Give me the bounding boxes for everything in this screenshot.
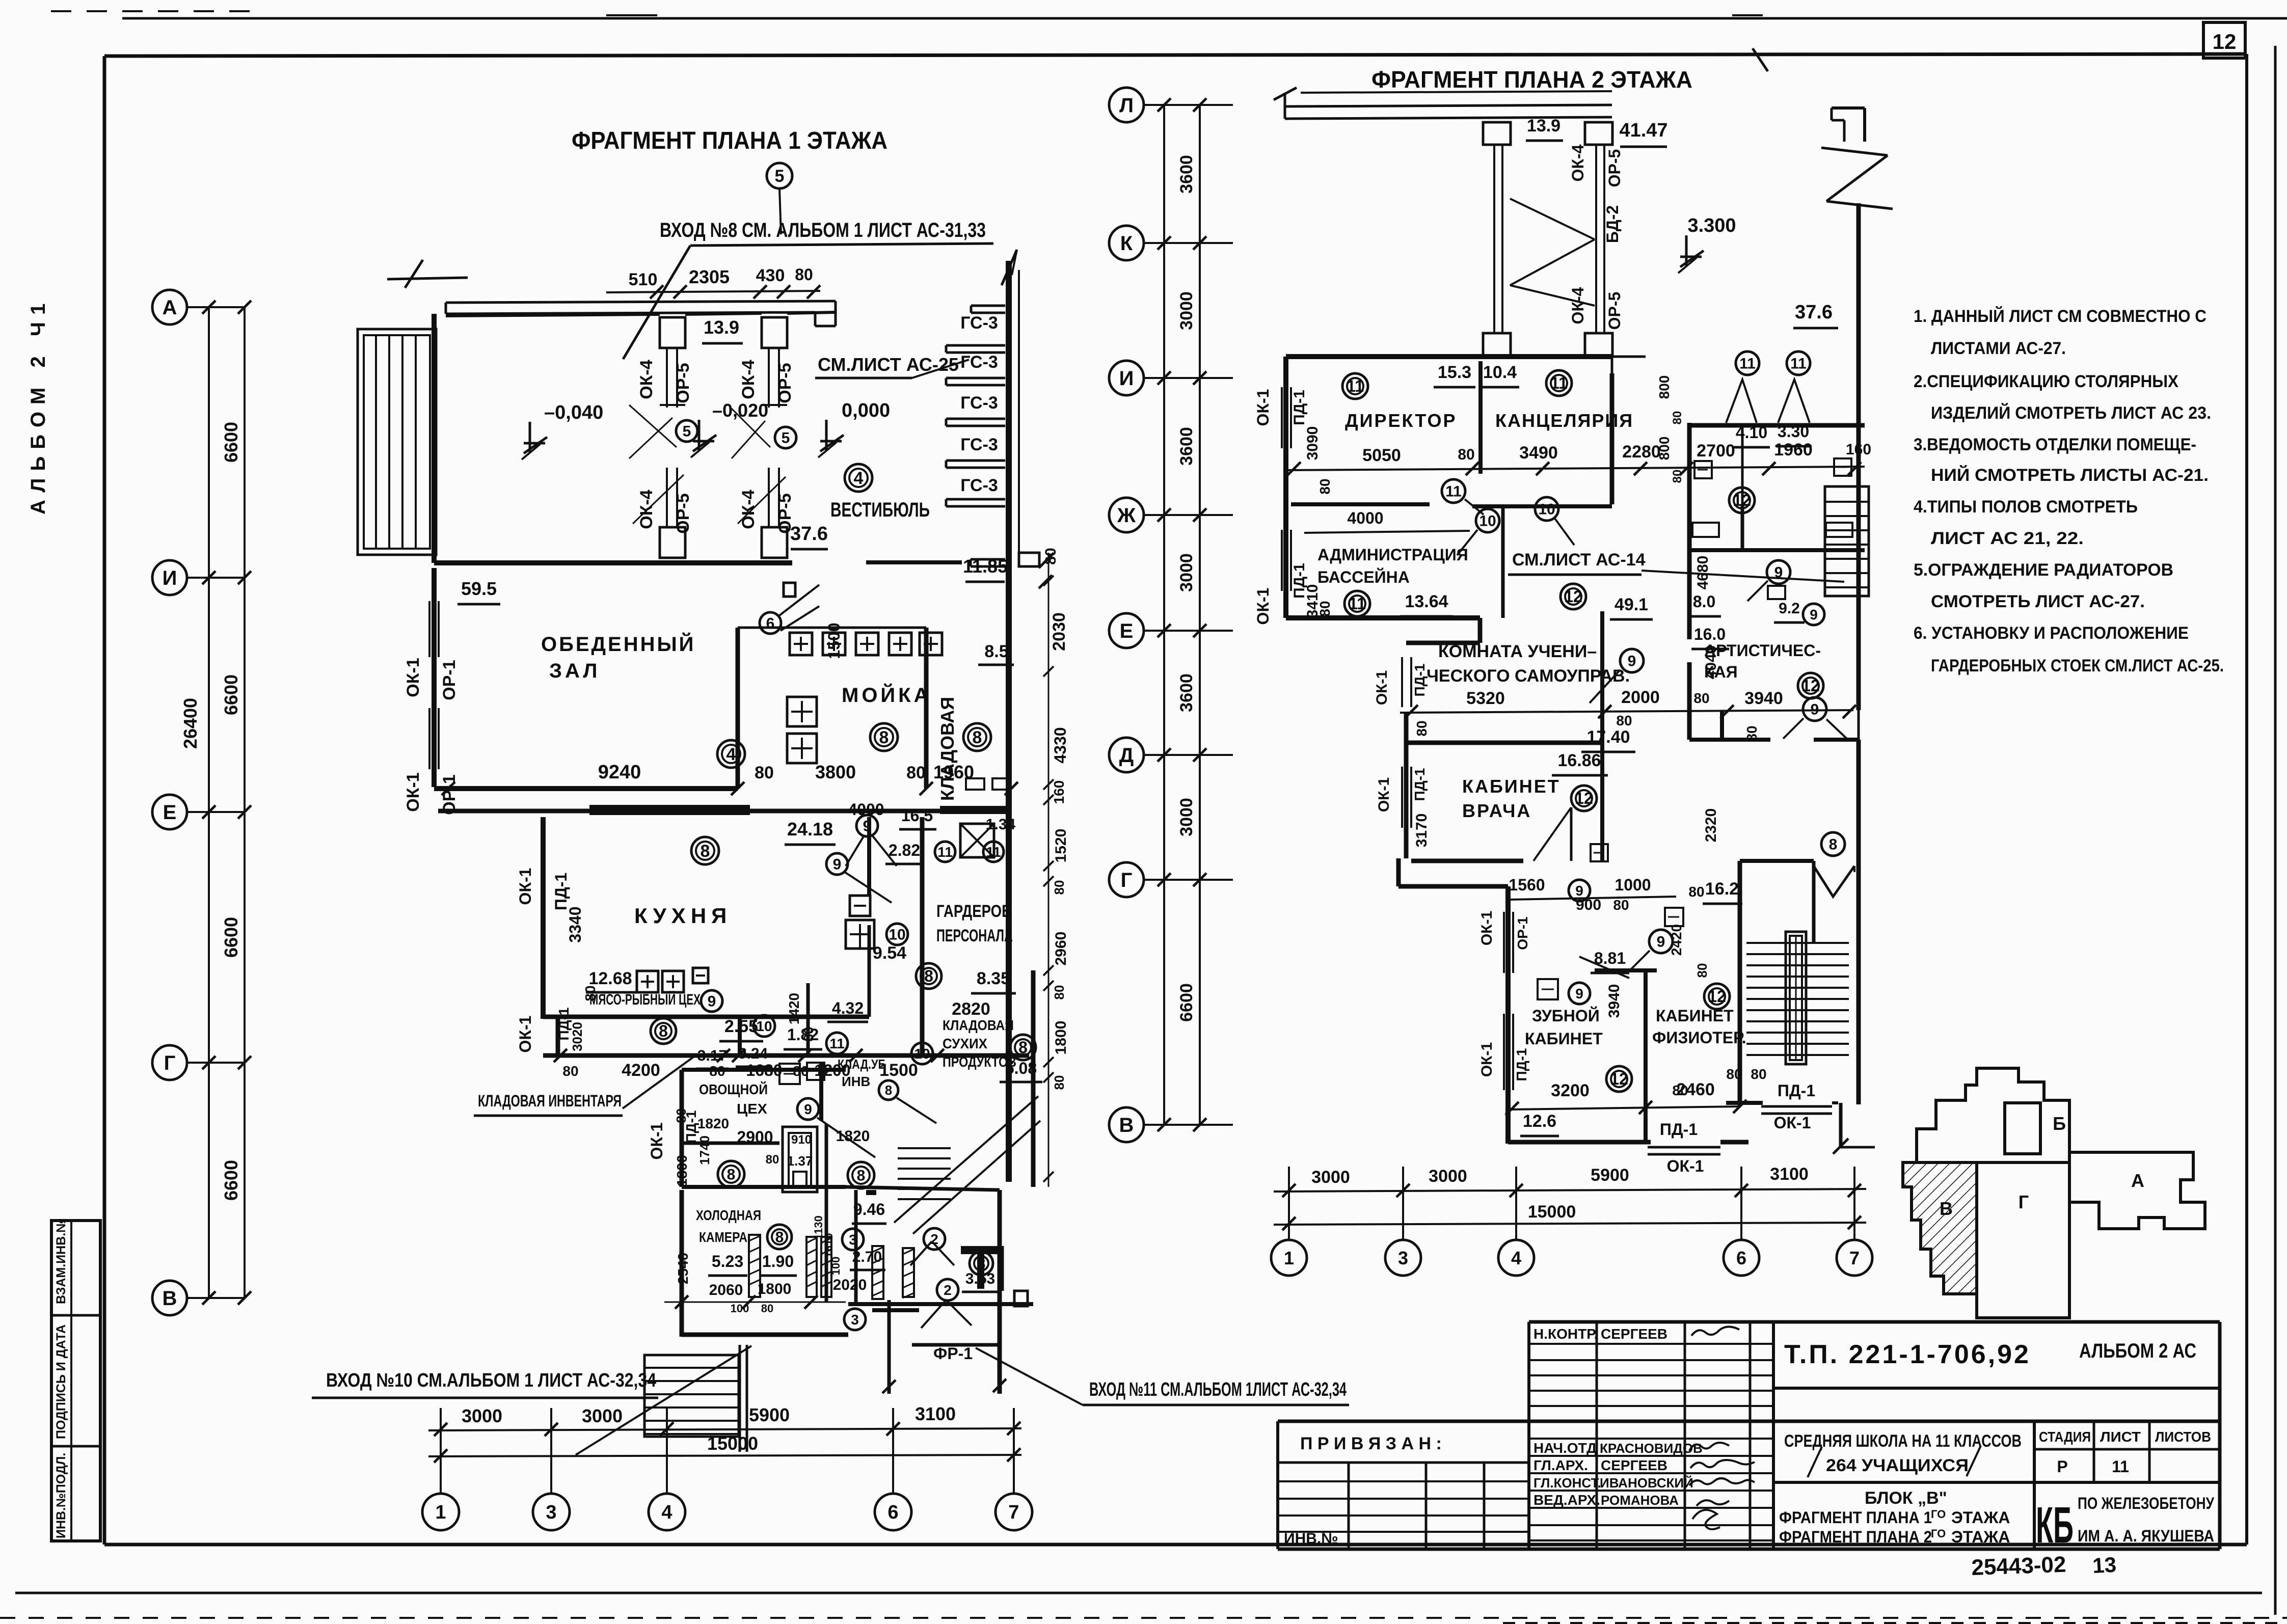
svg-text:1000: 1000 bbox=[1615, 876, 1651, 894]
svg-text:КОМНАТА УЧЕНИ–: КОМНАТА УЧЕНИ– bbox=[1438, 642, 1597, 661]
svg-text:Е: Е bbox=[1120, 620, 1134, 642]
svg-text:6. УСТАНОВКУ И РАСПОЛОЖЕНИЕ: 6. УСТАНОВКУ И РАСПОЛОЖЕНИЕ bbox=[1914, 624, 2189, 643]
svg-text:ДИРЕКТОР: ДИРЕКТОР bbox=[1345, 410, 1457, 431]
svg-text:Т.П. 221-1-706,92: Т.П. 221-1-706,92 bbox=[1784, 1340, 2031, 1369]
svg-text:Г: Г bbox=[164, 1052, 176, 1074]
svg-text:25443-02: 25443-02 bbox=[1971, 1552, 2067, 1580]
svg-text:5900: 5900 bbox=[1591, 1166, 1629, 1185]
svg-text:3.30: 3.30 bbox=[1778, 422, 1809, 441]
svg-text:1: 1 bbox=[435, 1502, 446, 1523]
svg-text:Ж: Ж bbox=[1117, 504, 1136, 527]
svg-text:9: 9 bbox=[833, 856, 842, 873]
svg-text:ОК-1: ОК-1 bbox=[1478, 911, 1495, 945]
svg-text:2420: 2420 bbox=[1669, 924, 1684, 956]
svg-text:ОК-1: ОК-1 bbox=[403, 658, 423, 697]
svg-text:12: 12 bbox=[1564, 587, 1582, 606]
svg-text:ОВОЩНОЙ: ОВОЩНОЙ bbox=[699, 1081, 768, 1097]
svg-text:80: 80 bbox=[1458, 446, 1474, 463]
svg-text:ОР-1: ОР-1 bbox=[440, 660, 459, 700]
svg-text:ПД-1: ПД-1 bbox=[1778, 1081, 1815, 1100]
svg-text:К: К bbox=[1120, 232, 1133, 255]
svg-text:10: 10 bbox=[889, 927, 905, 943]
svg-text:ФИЗИОТЕР.: ФИЗИОТЕР. bbox=[1652, 1028, 1746, 1047]
svg-text:37.6: 37.6 bbox=[1795, 302, 1833, 323]
svg-text:АДМИНИСТРАЦИЯ: АДМИНИСТРАЦИЯ bbox=[1317, 546, 1468, 564]
svg-text:ВЗАМ.ИНВ.№: ВЗАМ.ИНВ.№ bbox=[54, 1219, 68, 1304]
svg-text:ПД-1: ПД-1 bbox=[552, 873, 570, 910]
svg-text:1420: 1420 bbox=[786, 993, 802, 1024]
svg-text:ПОДПИСЬ И ДАТА: ПОДПИСЬ И ДАТА bbox=[54, 1324, 68, 1439]
svg-text:ОР-5: ОР-5 bbox=[775, 363, 795, 403]
svg-text:12: 12 bbox=[1708, 987, 1726, 1006]
svg-text:ОК-1: ОК-1 bbox=[1374, 670, 1390, 705]
svg-text:800: 800 bbox=[1656, 375, 1672, 399]
svg-text:6600: 6600 bbox=[221, 674, 241, 715]
svg-text:37.6: 37.6 bbox=[790, 523, 828, 545]
svg-text:–0,040: –0,040 bbox=[544, 402, 603, 423]
svg-text:Г: Г bbox=[1121, 869, 1133, 891]
svg-text:ОР-5: ОР-5 bbox=[674, 363, 693, 403]
svg-text:3000: 3000 bbox=[1429, 1167, 1467, 1186]
svg-text:ЧЕСКОГО САМОУПРАВ.: ЧЕСКОГО САМОУПРАВ. bbox=[1427, 666, 1630, 686]
svg-text:9240: 9240 bbox=[598, 762, 641, 783]
svg-text:2460: 2460 bbox=[1676, 1080, 1715, 1099]
svg-text:ЭТАЖА: ЭТАЖА bbox=[1951, 1508, 2010, 1527]
svg-text:В: В bbox=[1119, 1114, 1134, 1136]
svg-text:11: 11 bbox=[1790, 356, 1807, 372]
svg-text:ПД-1: ПД-1 bbox=[1291, 390, 1308, 425]
svg-text:3.17: 3.17 bbox=[697, 1047, 727, 1064]
svg-text:МЯСО-РЫБНЫЙ ЦЕХ: МЯСО-РЫБНЫЙ ЦЕХ bbox=[589, 991, 701, 1008]
svg-text:59.5: 59.5 bbox=[461, 578, 497, 599]
svg-text:80: 80 bbox=[1613, 897, 1629, 913]
svg-text:ФРАГМЕНТ ПЛАНА 2: ФРАГМЕНТ ПЛАНА 2 bbox=[1779, 1528, 1932, 1546]
svg-text:24.18: 24.18 bbox=[787, 819, 833, 840]
svg-text:3100: 3100 bbox=[915, 1403, 956, 1424]
svg-text:10.4: 10.4 bbox=[1483, 363, 1517, 382]
svg-text:3940: 3940 bbox=[1606, 984, 1623, 1018]
svg-text:12: 12 bbox=[2213, 30, 2237, 53]
svg-text:3100: 3100 bbox=[1770, 1165, 1809, 1184]
svg-text:9: 9 bbox=[804, 1101, 812, 1117]
svg-text:8: 8 bbox=[775, 1229, 784, 1246]
svg-text:1800: 1800 bbox=[1053, 1021, 1069, 1055]
svg-text:80: 80 bbox=[1052, 985, 1067, 1000]
svg-text:ГС-3: ГС-3 bbox=[960, 435, 998, 454]
svg-text:ИНВ: ИНВ bbox=[842, 1074, 870, 1089]
svg-text:ЗУБНОЙ: ЗУБНОЙ bbox=[1532, 1007, 1600, 1025]
svg-text:ОК-1: ОК-1 bbox=[516, 1016, 534, 1053]
svg-text:1520: 1520 bbox=[1053, 829, 1069, 863]
svg-text:9: 9 bbox=[708, 993, 716, 1010]
svg-text:11: 11 bbox=[1347, 377, 1364, 395]
svg-text:11: 11 bbox=[937, 844, 953, 860]
svg-text:ОК-4: ОК-4 bbox=[637, 360, 656, 399]
svg-text:9: 9 bbox=[1774, 564, 1783, 581]
svg-text:2960: 2960 bbox=[1053, 932, 1069, 966]
svg-text:430: 430 bbox=[756, 266, 785, 285]
svg-text:ИНВ.№: ИНВ.№ bbox=[1284, 1530, 1338, 1547]
svg-text:15.3: 15.3 bbox=[1438, 363, 1471, 382]
svg-text:12.6: 12.6 bbox=[1523, 1112, 1556, 1131]
svg-text:КАНЦЕЛЯРИЯ: КАНЦЕЛЯРИЯ bbox=[1495, 410, 1633, 431]
svg-text:11: 11 bbox=[1349, 594, 1366, 613]
svg-text:3000: 3000 bbox=[1177, 798, 1196, 836]
svg-text:80: 80 bbox=[1693, 690, 1709, 706]
svg-text:ЛИСТ: ЛИСТ bbox=[2100, 1429, 2141, 1445]
svg-text:12: 12 bbox=[1733, 491, 1751, 509]
svg-text:160: 160 bbox=[1051, 780, 1067, 804]
svg-text:2.СПЕЦИФИКАЦИЮ СТОЛЯРНЫХ: 2.СПЕЦИФИКАЦИЮ СТОЛЯРНЫХ bbox=[1914, 372, 2178, 391]
svg-text:80: 80 bbox=[1671, 411, 1684, 425]
svg-text:1960: 1960 bbox=[1774, 440, 1813, 459]
svg-text:80: 80 bbox=[674, 1108, 689, 1123]
svg-text:ИМ А. А. ЯКУШЕВА: ИМ А. А. ЯКУШЕВА bbox=[2078, 1527, 2214, 1545]
svg-text:80: 80 bbox=[1317, 478, 1333, 494]
svg-text:7: 7 bbox=[1849, 1248, 1860, 1268]
svg-text:СМ.ЛИСТ АС-25: СМ.ЛИСТ АС-25 bbox=[818, 354, 959, 375]
svg-text:9.24: 9.24 bbox=[738, 1045, 768, 1062]
svg-text:6600: 6600 bbox=[1177, 983, 1196, 1022]
svg-text:1740: 1740 bbox=[697, 1135, 712, 1165]
svg-text:910: 910 bbox=[791, 1133, 812, 1147]
svg-text:4040: 4040 bbox=[1703, 645, 1719, 680]
svg-text:80: 80 bbox=[1414, 720, 1430, 736]
svg-text:3.300: 3.300 bbox=[1687, 215, 1736, 236]
svg-text:ПД-1: ПД-1 bbox=[1412, 768, 1428, 801]
svg-text:ХОЛОДНАЯ: ХОЛОДНАЯ bbox=[696, 1207, 761, 1223]
svg-text:ОК-4: ОК-4 bbox=[1569, 144, 1587, 181]
svg-text:ГЛ.КОНСТ.: ГЛ.КОНСТ. bbox=[1533, 1475, 1601, 1491]
svg-text:ПД-1: ПД-1 bbox=[1660, 1120, 1698, 1139]
svg-text:КАМЕРА: КАМЕРА bbox=[699, 1229, 747, 1245]
svg-text:3600: 3600 bbox=[1177, 673, 1196, 712]
svg-text:АЛЬБОМ 2 Ч1: АЛЬБОМ 2 Ч1 bbox=[27, 296, 49, 515]
svg-text:80: 80 bbox=[761, 1302, 773, 1315]
svg-text:80: 80 bbox=[755, 763, 774, 782]
svg-text:СТАДИЯ: СТАДИЯ bbox=[2039, 1429, 2091, 1445]
svg-text:ФР-1: ФР-1 bbox=[933, 1344, 973, 1363]
svg-text:3000: 3000 bbox=[1311, 1168, 1350, 1187]
svg-text:2540: 2540 bbox=[675, 1253, 691, 1284]
svg-text:2280: 2280 bbox=[1622, 442, 1661, 462]
svg-text:2030: 2030 bbox=[1050, 612, 1069, 651]
svg-text:8: 8 bbox=[973, 728, 982, 747]
svg-text:И: И bbox=[1119, 367, 1134, 390]
svg-text:16.2: 16.2 bbox=[1705, 879, 1739, 899]
svg-text:9: 9 bbox=[1657, 934, 1665, 951]
svg-text:1. ДАННЫЙ ЛИСТ СМ СОВМЕСТНО С: 1. ДАННЫЙ ЛИСТ СМ СОВМЕСТНО С bbox=[1914, 306, 2207, 326]
svg-text:ПЕРСОНАЛА: ПЕРСОНАЛА bbox=[936, 926, 1013, 945]
svg-text:1800: 1800 bbox=[758, 1281, 792, 1297]
svg-text:ЛИСТОВ: ЛИСТОВ bbox=[2155, 1429, 2211, 1445]
svg-text:13.9: 13.9 bbox=[704, 317, 739, 338]
svg-text:6600: 6600 bbox=[221, 422, 241, 463]
svg-text:А: А bbox=[2131, 1170, 2144, 1191]
svg-text:10: 10 bbox=[1479, 513, 1496, 530]
svg-text:5.23: 5.23 bbox=[712, 1252, 743, 1270]
svg-text:11: 11 bbox=[1445, 483, 1462, 500]
svg-text:3170: 3170 bbox=[1413, 814, 1430, 848]
svg-text:В: В bbox=[1940, 1198, 1953, 1219]
svg-text:3800: 3800 bbox=[815, 762, 856, 782]
svg-text:4: 4 bbox=[854, 469, 864, 488]
svg-text:ВРАЧА: ВРАЧА bbox=[1462, 800, 1531, 821]
svg-text:8: 8 bbox=[727, 1167, 736, 1183]
svg-text:ФРАГМЕНТ ПЛАНА 1: ФРАГМЕНТ ПЛАНА 1 bbox=[1779, 1508, 1932, 1527]
svg-text:0,000: 0,000 bbox=[842, 400, 890, 421]
svg-text:КЛАДОВАЯ: КЛАДОВАЯ bbox=[943, 1017, 1014, 1033]
svg-text:12: 12 bbox=[1575, 789, 1593, 807]
svg-text:2000: 2000 bbox=[1621, 688, 1660, 707]
svg-text:2020: 2020 bbox=[833, 1277, 867, 1293]
svg-text:5: 5 bbox=[775, 167, 785, 186]
svg-text:НИЙ СМОТРЕТЬ ЛИСТЫ АС-21.: НИЙ СМОТРЕТЬ ЛИСТЫ АС-21. bbox=[1931, 465, 2209, 485]
svg-text:9.46: 9.46 bbox=[853, 1200, 885, 1219]
svg-text:ГАРДЕРОБ: ГАРДЕРОБ bbox=[936, 902, 1012, 921]
svg-text:7: 7 bbox=[1008, 1502, 1019, 1523]
svg-text:ОК-1: ОК-1 bbox=[648, 1123, 666, 1160]
svg-text:80: 80 bbox=[1052, 1075, 1067, 1090]
svg-text:ОК-4: ОК-4 bbox=[739, 490, 758, 529]
svg-text:3090: 3090 bbox=[1304, 426, 1321, 461]
svg-text:2305: 2305 bbox=[689, 266, 730, 287]
svg-text:4: 4 bbox=[727, 745, 736, 764]
svg-text:ОК-1: ОК-1 bbox=[403, 772, 423, 811]
svg-text:2060: 2060 bbox=[709, 1282, 743, 1298]
svg-text:9: 9 bbox=[1811, 701, 1819, 718]
svg-text:8.35: 8.35 bbox=[977, 969, 1010, 988]
svg-text:АЛЬБОМ 2 АС: АЛЬБОМ 2 АС bbox=[2079, 1340, 2196, 1362]
svg-text:3000: 3000 bbox=[1177, 553, 1196, 592]
svg-text:80: 80 bbox=[562, 1063, 578, 1079]
svg-text:2.82: 2.82 bbox=[889, 841, 920, 859]
svg-text:13.64: 13.64 bbox=[1405, 592, 1448, 611]
svg-text:БЛОК „В": БЛОК „В" bbox=[1865, 1488, 1947, 1508]
svg-text:510: 510 bbox=[629, 270, 658, 289]
svg-text:4: 4 bbox=[1511, 1248, 1521, 1268]
svg-text:ГО: ГО bbox=[1931, 1527, 1946, 1540]
svg-text:3.ВЕДОМОСТЬ ОТДЕЛКИ ПОМЕЩЕ-: 3.ВЕДОМОСТЬ ОТДЕЛКИ ПОМЕЩЕ- bbox=[1914, 435, 2196, 454]
svg-text:РОМАНОВА: РОМАНОВА bbox=[1601, 1493, 1679, 1508]
svg-text:ОК-4: ОК-4 bbox=[1569, 287, 1587, 324]
svg-text:ОК-1: ОК-1 bbox=[1667, 1157, 1704, 1175]
svg-text:13: 13 bbox=[2092, 1553, 2117, 1578]
svg-text:ГС-3: ГС-3 bbox=[960, 393, 998, 413]
svg-text:8: 8 bbox=[701, 842, 710, 861]
svg-text:3940: 3940 bbox=[1744, 689, 1783, 708]
svg-text:80: 80 bbox=[906, 763, 926, 782]
svg-text:49.1: 49.1 bbox=[1615, 595, 1648, 614]
svg-text:6: 6 bbox=[1736, 1248, 1746, 1268]
svg-text:Д: Д bbox=[1119, 744, 1134, 767]
svg-text:15000: 15000 bbox=[1528, 1202, 1576, 1222]
svg-text:ВЕД.АРХ.: ВЕД.АРХ. bbox=[1533, 1492, 1600, 1508]
svg-text:4000: 4000 bbox=[1347, 509, 1383, 527]
svg-text:ОК-1: ОК-1 bbox=[1254, 389, 1272, 426]
svg-text:8: 8 bbox=[1829, 836, 1838, 853]
svg-text:80: 80 bbox=[766, 1153, 779, 1167]
svg-text:ИЗДЕЛИЙ СМОТРЕТЬ ЛИСТ АС 23.: ИЗДЕЛИЙ СМОТРЕТЬ ЛИСТ АС 23. bbox=[1931, 403, 2211, 423]
svg-text:АРТИСТИЧЕС-: АРТИСТИЧЕС- bbox=[1704, 641, 1821, 660]
svg-text:ГС-3: ГС-3 bbox=[960, 353, 998, 372]
svg-text:4.32: 4.32 bbox=[832, 999, 864, 1017]
svg-text:ЦЕХ: ЦЕХ bbox=[737, 1101, 767, 1117]
svg-text:ОК-4: ОК-4 bbox=[739, 360, 758, 399]
svg-text:4: 4 bbox=[661, 1502, 672, 1523]
svg-text:12.68: 12.68 bbox=[588, 969, 632, 988]
svg-text:5320: 5320 bbox=[1466, 689, 1505, 708]
svg-text:ЛИСТ АС 21, 22.: ЛИСТ АС 21, 22. bbox=[1931, 529, 2084, 548]
svg-text:ОР-5: ОР-5 bbox=[1605, 292, 1624, 330]
svg-text:3: 3 bbox=[1398, 1248, 1408, 1268]
svg-text:8: 8 bbox=[857, 1168, 866, 1184]
svg-text:П Р И В Я З А Н :: П Р И В Я З А Н : bbox=[1300, 1434, 1442, 1453]
svg-text:ФРАГМЕНТ ПЛАНА 2 ЭТАЖА: ФРАГМЕНТ ПЛАНА 2 ЭТАЖА bbox=[1371, 66, 1692, 93]
svg-text:3000: 3000 bbox=[582, 1405, 623, 1426]
svg-text:9.2: 9.2 bbox=[1779, 600, 1800, 617]
svg-text:1800: 1800 bbox=[674, 1155, 690, 1186]
svg-text:НАЧ.ОТД: НАЧ.ОТД bbox=[1533, 1440, 1597, 1456]
svg-text:КАБИНЕТ: КАБИНЕТ bbox=[1462, 776, 1560, 797]
svg-text:3200: 3200 bbox=[1551, 1081, 1590, 1100]
svg-text:ПД-1: ПД-1 bbox=[1514, 1048, 1529, 1081]
svg-text:СМОТРЕТЬ ЛИСТ АС-27.: СМОТРЕТЬ ЛИСТ АС-27. bbox=[1931, 592, 2145, 611]
svg-text:41.47: 41.47 bbox=[1619, 120, 1667, 141]
svg-text:КУХНЯ: КУХНЯ bbox=[634, 904, 732, 928]
svg-text:8.5: 8.5 bbox=[984, 642, 1008, 661]
svg-text:9: 9 bbox=[1575, 986, 1583, 1002]
svg-text:ГЛ.АРХ.: ГЛ.АРХ. bbox=[1533, 1457, 1588, 1473]
svg-text:ОР-5: ОР-5 bbox=[1605, 149, 1624, 187]
svg-text:8: 8 bbox=[879, 728, 889, 747]
svg-text:Е: Е bbox=[163, 801, 177, 824]
svg-text:11: 11 bbox=[2112, 1457, 2129, 1476]
svg-text:ВХОД №8 СМ. АЛЬБОМ 1 ЛИСТ АС-3: ВХОД №8 СМ. АЛЬБОМ 1 ЛИСТ АС-31,33 bbox=[660, 219, 986, 241]
svg-text:ВЕСТИБЮЛЬ: ВЕСТИБЮЛЬ bbox=[830, 499, 930, 521]
svg-text:80: 80 bbox=[1694, 963, 1710, 978]
svg-text:БАССЕЙНА: БАССЕЙНА bbox=[1317, 568, 1410, 586]
svg-text:СРЕДНЯЯ ШКОЛА НА 11 КЛАССОВ: СРЕДНЯЯ ШКОЛА НА 11 КЛАССОВ bbox=[1784, 1431, 2022, 1451]
svg-text:ЗАЛ: ЗАЛ bbox=[549, 660, 601, 682]
svg-text:26400: 26400 bbox=[180, 698, 201, 749]
svg-text:1.34: 1.34 bbox=[986, 816, 1016, 833]
svg-text:В: В bbox=[163, 1287, 177, 1310]
svg-text:ПД-1: ПД-1 bbox=[1412, 664, 1428, 697]
svg-text:А: А bbox=[163, 296, 177, 319]
svg-text:ОК-1: ОК-1 bbox=[1254, 588, 1272, 625]
svg-text:80: 80 bbox=[1317, 601, 1333, 616]
svg-text:1: 1 bbox=[1284, 1248, 1294, 1268]
svg-text:СМ.ЛИСТ АС-14: СМ.ЛИСТ АС-14 bbox=[1512, 550, 1646, 570]
svg-text:ГС-3: ГС-3 bbox=[960, 313, 998, 333]
svg-text:2: 2 bbox=[944, 1282, 952, 1298]
svg-text:1.90: 1.90 bbox=[762, 1252, 794, 1270]
svg-text:13.9: 13.9 bbox=[1527, 116, 1560, 136]
svg-text:3490: 3490 bbox=[1519, 443, 1558, 463]
svg-text:СЕРГЕЕВ: СЕРГЕЕВ bbox=[1601, 1326, 1667, 1342]
svg-text:2700: 2700 bbox=[1697, 441, 1735, 461]
svg-text:5: 5 bbox=[782, 430, 790, 447]
svg-text:Н.КОНТР.: Н.КОНТР. bbox=[1533, 1326, 1598, 1342]
svg-text:1820: 1820 bbox=[697, 1116, 729, 1131]
svg-text:6600: 6600 bbox=[221, 1160, 241, 1201]
svg-text:2320: 2320 bbox=[1703, 808, 1719, 843]
svg-text:12: 12 bbox=[1610, 1070, 1628, 1088]
svg-text:СУХИХ: СУХИХ bbox=[943, 1036, 987, 1051]
svg-text:80: 80 bbox=[1726, 1066, 1742, 1082]
svg-text:3600: 3600 bbox=[1177, 427, 1196, 466]
svg-text:6: 6 bbox=[887, 1502, 898, 1523]
svg-text:МОЙКА: МОЙКА bbox=[842, 683, 931, 707]
svg-text:4.ТИПЫ ПОЛОВ СМОТРЕТЬ: 4.ТИПЫ ПОЛОВ СМОТРЕТЬ bbox=[1914, 497, 2138, 517]
svg-text:ОБЕДЕННЫЙ: ОБЕДЕННЫЙ bbox=[541, 632, 695, 656]
svg-text:КЛАДОВАЯ: КЛАДОВАЯ bbox=[937, 697, 958, 801]
svg-text:4.10: 4.10 bbox=[1736, 423, 1767, 442]
svg-text:ОР-5: ОР-5 bbox=[674, 493, 693, 533]
svg-text:Г: Г bbox=[2019, 1192, 2029, 1212]
svg-text:3600: 3600 bbox=[1177, 155, 1196, 194]
svg-text:3020: 3020 bbox=[570, 1022, 585, 1051]
svg-text:ОК-1: ОК-1 bbox=[1376, 777, 1392, 812]
svg-text:3000: 3000 bbox=[1177, 291, 1196, 330]
svg-text:СЕРГЕЕВ: СЕРГЕЕВ bbox=[1601, 1457, 1667, 1473]
svg-text:ОК-1: ОК-1 bbox=[1478, 1042, 1495, 1077]
svg-text:ГО: ГО bbox=[1931, 1508, 1946, 1521]
svg-text:3: 3 bbox=[546, 1502, 556, 1523]
svg-text:ИВАНОВСКИЙ: ИВАНОВСКИЙ bbox=[1600, 1475, 1693, 1491]
svg-text:ГС-3: ГС-3 bbox=[960, 476, 998, 495]
svg-text:9: 9 bbox=[1628, 653, 1636, 670]
svg-text:1560: 1560 bbox=[1509, 876, 1545, 894]
svg-text:КБ: КБ bbox=[2036, 1497, 2074, 1554]
svg-text:80: 80 bbox=[1688, 884, 1704, 900]
svg-text:КРАСНОВИДОВ: КРАСНОВИДОВ bbox=[1600, 1441, 1703, 1456]
svg-text:3: 3 bbox=[851, 1312, 859, 1328]
svg-text:4330: 4330 bbox=[1051, 727, 1069, 763]
svg-text:3340: 3340 bbox=[566, 906, 584, 942]
svg-text:11: 11 bbox=[1739, 356, 1756, 372]
svg-text:ЛИСТАМИ АС-27.: ЛИСТАМИ АС-27. bbox=[1931, 339, 2066, 358]
svg-text:80: 80 bbox=[795, 265, 813, 284]
svg-text:800: 800 bbox=[1656, 437, 1672, 461]
svg-text:БД-2: БД-2 bbox=[1603, 205, 1622, 243]
svg-text:8.0: 8.0 bbox=[1693, 592, 1715, 611]
svg-text:8: 8 bbox=[885, 1082, 892, 1098]
svg-text:80: 80 bbox=[1744, 725, 1760, 741]
svg-text:16.5: 16.5 bbox=[901, 806, 933, 825]
svg-text:ОР-1: ОР-1 bbox=[1515, 916, 1530, 950]
svg-text:10: 10 bbox=[756, 1018, 772, 1034]
svg-text:ФРАГМЕНТ ПЛАНА 1 ЭТАЖА: ФРАГМЕНТ ПЛАНА 1 ЭТАЖА bbox=[572, 127, 887, 154]
svg-text:11: 11 bbox=[1550, 374, 1568, 392]
svg-text:ПО ЖЕЛЕЗОБЕТОНУ: ПО ЖЕЛЕЗОБЕТОНУ bbox=[2078, 1494, 2215, 1512]
svg-text:КЛАД.УБ: КЛАД.УБ bbox=[838, 1057, 886, 1072]
svg-text:9.54: 9.54 bbox=[873, 943, 906, 963]
svg-text:264 УЧАЩИХСЯ: 264 УЧАЩИХСЯ bbox=[1826, 1456, 1969, 1475]
svg-text:3000: 3000 bbox=[462, 1405, 502, 1426]
svg-text:8: 8 bbox=[659, 1022, 668, 1040]
svg-text:80: 80 bbox=[1671, 470, 1684, 483]
svg-text:КАБИНЕТ: КАБИНЕТ bbox=[1525, 1030, 1603, 1048]
svg-text:80: 80 bbox=[1052, 880, 1067, 895]
svg-text:11.85: 11.85 bbox=[963, 556, 1008, 577]
svg-text:80: 80 bbox=[1751, 1066, 1766, 1082]
svg-text:8: 8 bbox=[924, 967, 933, 985]
svg-text:6600: 6600 bbox=[221, 917, 241, 958]
svg-text:80: 80 bbox=[1616, 713, 1632, 728]
svg-text:ВХОД №11 СМ.АЛЬБОМ 1ЛИСТ АС-32: ВХОД №11 СМ.АЛЬБОМ 1ЛИСТ АС-32,34 bbox=[1089, 1379, 1347, 1400]
